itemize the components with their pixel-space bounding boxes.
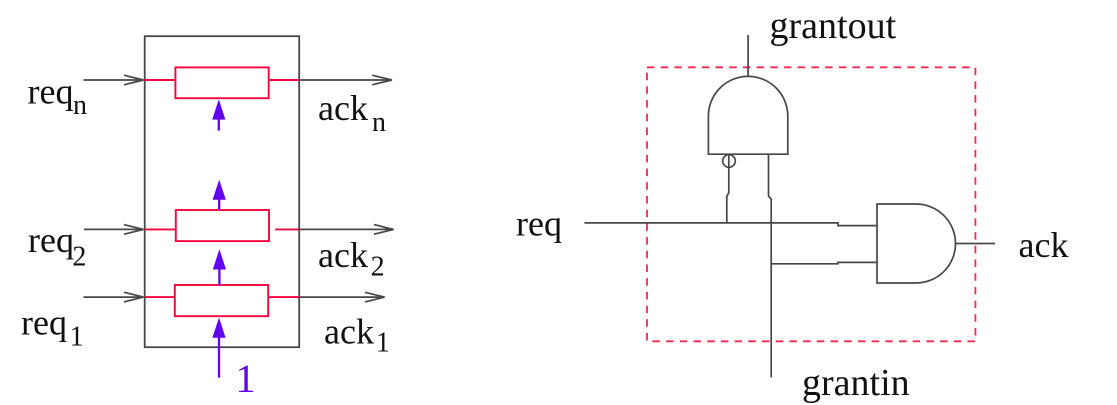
token arrow bottom cell to middle cell	[213, 249, 226, 285]
svg-text:grantin: grantin	[802, 362, 910, 404]
inverter bubble on U1 left input	[723, 155, 736, 168]
arbiter cell 1 (bottom)	[175, 285, 268, 316]
svg-text:grantout: grantout	[770, 5, 897, 47]
output arrow ack_2	[299, 225, 393, 235]
output arrow ack_1	[299, 292, 384, 302]
wire ack_1 red segment	[268, 296, 299, 298]
svg-text:2: 2	[72, 242, 86, 273]
svg-text:n: n	[372, 107, 386, 138]
wire grantout	[747, 35, 749, 76]
dashed cell boundary	[647, 67, 975, 341]
label req_1	[21, 303, 84, 353]
svg-text:ack: ack	[1019, 225, 1069, 265]
svg-text:ack: ack	[318, 88, 368, 128]
wire req_n red segment	[145, 79, 176, 81]
label ack_2	[318, 235, 385, 283]
svg-text:1: 1	[376, 328, 390, 359]
arbiter cell 2 (middle)	[176, 210, 269, 241]
arbiter cell n (top)	[175, 67, 268, 98]
wire req_2 red segment	[145, 228, 176, 230]
wire ack_2 red segment	[275, 228, 299, 230]
svg-text:1: 1	[236, 356, 256, 401]
svg-text:req: req	[516, 204, 562, 244]
label req_n	[28, 71, 88, 121]
output arrow ack_n	[299, 75, 392, 85]
input arrow req_2	[84, 225, 144, 235]
svg-text:req: req	[28, 220, 74, 260]
input arrow req_1	[84, 292, 144, 302]
token arrow from middle cell top	[213, 180, 226, 211]
wire U2 bottom input from grantin	[771, 262, 877, 263]
svg-text:1: 1	[70, 322, 84, 353]
svg-text:req: req	[21, 303, 67, 343]
wire req	[584, 223, 877, 226]
label req_2	[28, 220, 86, 273]
svg-text:2: 2	[371, 252, 385, 283]
wire ack_n red segment	[269, 79, 300, 81]
svg-text:ack: ack	[324, 312, 374, 352]
label ack_n	[318, 88, 386, 138]
svg-text:ack: ack	[318, 235, 368, 275]
token arrow into top cell	[212, 99, 225, 130]
AND gate U2 (ack, points right)	[877, 204, 956, 283]
wire U1 left input (inverted)	[727, 154, 729, 223]
wire ack output	[956, 243, 996, 245]
input arrow req_n	[84, 75, 144, 85]
svg-text:req: req	[28, 71, 74, 111]
arbiter box	[145, 36, 300, 347]
svg-text:n: n	[73, 90, 87, 121]
wire grantin / U1 right input	[769, 154, 772, 377]
AND gate U1 (grant, points up)	[708, 76, 787, 154]
token arrow input 1 (bottom)	[212, 318, 225, 378]
wire req_1 red segment	[145, 296, 175, 298]
label ack_1	[324, 312, 390, 359]
